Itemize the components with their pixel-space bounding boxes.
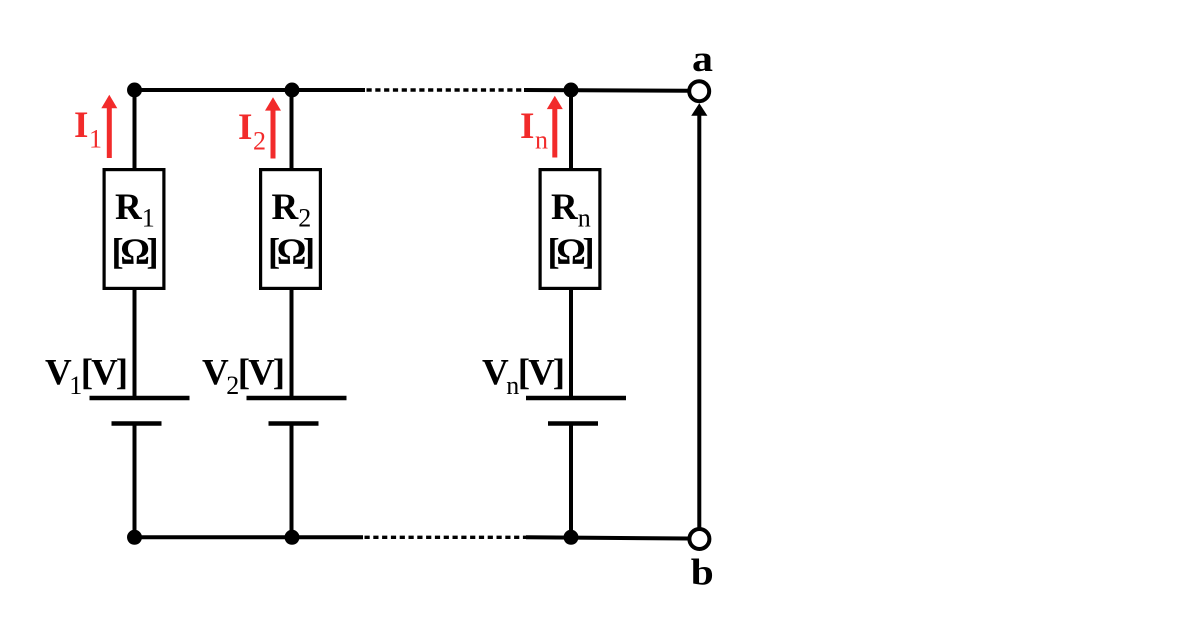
node: junction branch 2 / bottom bus [285,530,300,545]
battery V2 short plate (-) [269,421,319,426]
arrowhead: current direction into terminal a [691,103,707,115]
arrow: current I2 (red) [265,97,281,158]
resistor Rn body [540,170,600,289]
svg-text:[Ω]: [Ω] [547,232,594,273]
wire: branch n resistor to battery [569,288,573,398]
terminal b open circle [689,529,709,549]
node: junction branch 1 / bottom bus [127,530,142,545]
node: junction branch 1 / top bus [127,83,142,98]
wire: bottom bus solid segment to terminal b [526,537,688,538]
node: junction branch n / top bus [564,83,579,98]
terminal a open circle [689,81,709,101]
svg-text:Vn[V]: Vn[V] [482,352,565,400]
wire: branch 1 resistor to battery [133,288,137,398]
svg-text:a: a [692,39,713,80]
wire: branch n top vertical [569,90,573,170]
svg-text:b: b [691,552,714,593]
svg-text:V1[V]: V1[V] [45,352,128,400]
wire: top bus solid segment (node 1 to node 2 area) [135,88,366,92]
wire: branch 2 top vertical [290,90,294,170]
arrow: current I1 (red) [101,95,117,158]
svg-text:Rn: Rn [551,187,591,233]
wire: branch 1 battery to bottom bus [133,424,137,538]
svg-text:I2: I2 [238,107,266,156]
battery Vn short plate (-) [548,421,598,426]
wire: bottom bus dotted continuation segment [365,536,528,539]
svg-text:I1: I1 [74,105,102,154]
svg-text:V2[V]: V2[V] [202,352,285,400]
resistor R2 body [261,170,321,289]
resistor R1 body [104,170,164,289]
arrow: current In (red) [547,96,563,158]
wire: top bus dotted continuation segment [367,88,526,91]
svg-text:[Ω]: [Ω] [111,232,158,273]
battery V2 long plate (+) [247,396,347,401]
wire: top bus solid segment to terminal a [524,88,688,93]
wire: branch n battery to bottom bus [569,424,573,538]
svg-text:[Ω]: [Ω] [268,232,315,273]
svg-text:In: In [520,106,548,155]
wire: branch 1 top vertical [133,90,137,170]
wire: branch 2 resistor to battery [290,288,294,398]
battery V1 short plate (-) [112,421,162,426]
wire: bottom bus solid segment (node 1' to node 2' area) [135,535,364,539]
wire: branch 2 battery to bottom bus [290,424,294,538]
battery Vn long plate (+) [526,396,626,401]
svg-text:R2: R2 [272,187,312,233]
node: junction branch n / bottom bus [564,530,579,545]
battery V1 long plate (+) [90,396,190,401]
node: junction branch 2 / top bus [285,83,300,98]
wire: right branch vertical (b to a) [697,115,701,528]
svg-text:R1: R1 [115,187,155,233]
